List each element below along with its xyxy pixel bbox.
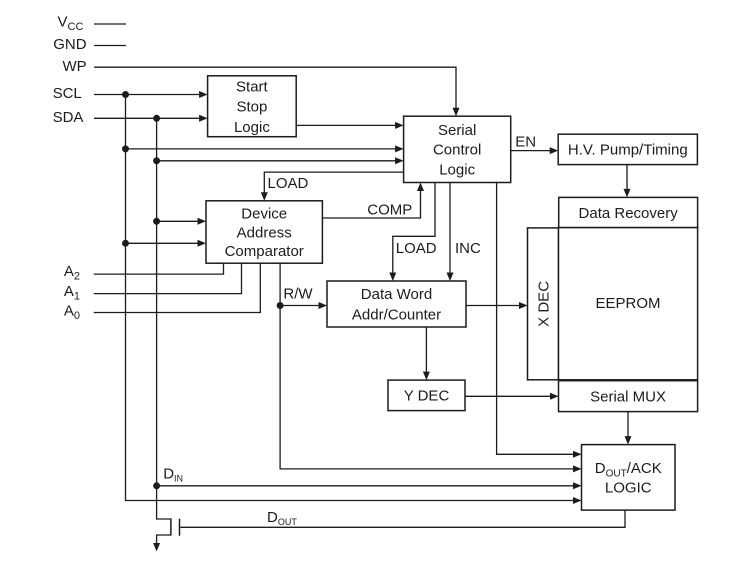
block U4 H.V. Pump/Timing	[558, 134, 697, 164]
svg-text:Serial MUX: Serial MUX	[590, 389, 666, 406]
svg-text:Data Recovery: Data Recovery	[579, 205, 679, 222]
svg-text:R/W: R/W	[283, 286, 313, 303]
svg-text:LOAD: LOAD	[396, 240, 437, 257]
wire A2 to comparator	[94, 263, 224, 274]
wire Serial Control Logic to DOUT/ACK LOGIC	[497, 183, 582, 458]
wire Y DEC to Serial MUX	[465, 393, 559, 400]
wire Serial MUX to DOUT/ACK LOGIC	[625, 412, 632, 445]
net label DIN	[163, 466, 183, 484]
wire A1 to comparator	[94, 263, 242, 293]
wire SCL branch to Device Address Comparator	[126, 240, 207, 247]
wire SDA branch to Serial Control Logic	[157, 157, 404, 164]
wire WP to Serial Control Logic top	[94, 67, 460, 116]
pin label GND	[53, 36, 86, 53]
svg-text:X DEC: X DEC	[535, 281, 552, 327]
ground arrow	[153, 543, 160, 552]
wire SDA bus down to output transistor drain	[153, 118, 170, 519]
block U9 Y DEC	[388, 380, 465, 411]
wire EN to H.V. Pump/Timing	[511, 147, 559, 154]
wire INC to Data Word Addr/Counter	[447, 183, 454, 282]
svg-text:WP: WP	[63, 58, 87, 75]
wire LOAD to Data Word Addr/Counter	[389, 183, 435, 282]
svg-text:Logic: Logic	[439, 161, 475, 178]
svg-text:INC: INC	[455, 240, 481, 257]
svg-text:EN: EN	[515, 133, 536, 150]
block U2 Serial Control Logic	[404, 116, 511, 182]
net label R/W	[283, 286, 313, 303]
pin label WP	[63, 58, 87, 75]
block U11 DOUT/ACK LOGIC	[582, 445, 676, 511]
net label LOAD (to Data Word Addr/Counter)	[396, 240, 437, 257]
wire GND stub	[94, 45, 126, 47]
wire SCL bus down and into DOUT/ACK LOGIC	[122, 95, 582, 505]
svg-text:Stop: Stop	[236, 99, 267, 116]
pin label VCC	[58, 14, 84, 34]
pin label SDA	[53, 109, 84, 126]
svg-text:Y DEC: Y DEC	[404, 388, 450, 405]
svg-text:COMP: COMP	[367, 202, 412, 219]
block U1 Start Stop Logic	[208, 76, 297, 137]
wire DOUT from DOUT/ACK LOGIC to transistor gate	[180, 510, 625, 527]
svg-text:Device: Device	[241, 205, 287, 222]
block U8 Serial MUX	[559, 381, 698, 412]
wire LOAD to Device Address Comparator	[261, 172, 404, 201]
svg-text:GND: GND	[53, 36, 86, 53]
wire SDA branch to Device Address Comparator	[157, 218, 206, 225]
svg-text:Serial: Serial	[438, 122, 476, 139]
wire Data Word Addr/Counter to Y DEC	[423, 327, 430, 380]
net label LOAD (to Device Address Comparator)	[268, 175, 309, 192]
pin label A1	[64, 283, 80, 303]
transistor Q1 channel bar	[170, 518, 172, 535]
wire DIN into DOUT/ACK LOGIC	[157, 482, 582, 489]
svg-text:EEPROM: EEPROM	[596, 295, 661, 312]
net label COMP	[367, 202, 412, 219]
block U5 Data Recovery	[559, 197, 698, 227]
pin label A2	[64, 263, 80, 283]
wire SCL branch to Serial Control Logic	[126, 145, 404, 152]
net label DOUT	[267, 509, 297, 527]
svg-text:Comparator: Comparator	[225, 243, 304, 260]
wire COMP to Serial Control Logic	[322, 183, 424, 219]
transistor Q1 gate bar	[179, 519, 181, 536]
block U6 X DEC	[528, 228, 559, 380]
transistor Q1 source lead	[157, 535, 171, 543]
wire H.V. Pump/Timing to Data Recovery	[624, 165, 631, 198]
svg-text:DOUT/ACK: DOUT/ACK	[595, 460, 662, 480]
wire A0 to comparator	[94, 263, 261, 312]
block U3 Device Address Comparator	[206, 201, 322, 263]
svg-text:Control: Control	[433, 142, 481, 159]
wire SCL to Start Stop Logic	[94, 91, 208, 98]
net label INC	[455, 240, 481, 257]
wire VCC stub	[94, 23, 126, 25]
svg-text:LOGIC: LOGIC	[605, 479, 652, 496]
net label EN	[515, 133, 536, 150]
pin label SCL	[53, 85, 82, 102]
svg-text:Addr/Counter: Addr/Counter	[352, 307, 441, 324]
pin label A0	[64, 303, 80, 323]
block U10 Data Word Addr/Counter	[327, 281, 466, 327]
svg-text:Data Word: Data Word	[361, 286, 432, 303]
svg-text:Start: Start	[236, 78, 269, 95]
svg-text:Address: Address	[237, 224, 292, 241]
wire R/W down and into DOUT/ACK LOGIC	[277, 263, 582, 472]
svg-text:SCL: SCL	[53, 85, 82, 102]
svg-text:SDA: SDA	[53, 109, 84, 126]
svg-text:LOAD: LOAD	[268, 175, 309, 192]
block U7 EEPROM	[559, 228, 698, 380]
wire R/W to Data Word Addr/Counter	[280, 302, 327, 309]
wire Data Word Addr/Counter to X DEC	[466, 302, 528, 309]
svg-text:Logic: Logic	[234, 119, 270, 136]
wire Start Stop Logic to Serial Control Logic	[296, 122, 403, 129]
wire SDA to Start Stop Logic	[94, 115, 208, 122]
svg-text:H.V. Pump/Timing: H.V. Pump/Timing	[568, 142, 688, 159]
